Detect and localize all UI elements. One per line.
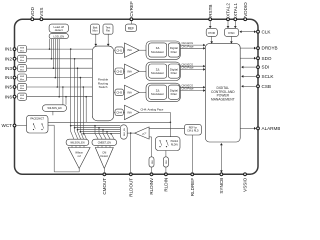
pin IN3	[13, 67, 16, 70]
svg-text:CH2: CH2	[116, 69, 122, 73]
svg-text:filter: filter	[20, 97, 24, 100]
lead-off detect block	[49, 24, 68, 32]
RLDINV capsule	[149, 157, 154, 167]
svg-text:DRDYB: DRDYB	[262, 46, 278, 51]
channel group CH2	[146, 62, 180, 80]
pin WCT	[13, 124, 16, 127]
wire EMI filter 1 to routing switch	[27, 48, 93, 50]
svg-text:VDDIO: VDDIO	[243, 2, 248, 17]
wire INA to modulator CH3	[139, 91, 146, 93]
wire CH3-Pace	[180, 90, 204, 92]
wire CH3-ECG	[180, 86, 204, 88]
wire CMDET tap 5	[110, 133, 112, 135]
svg-text:RLDOUT: RLDOUT	[128, 178, 133, 197]
pin RLDINV	[150, 173, 153, 176]
svg-text:EMI: EMI	[20, 76, 24, 78]
wire SYNCB (bidirectional)	[220, 145, 222, 172]
svg-text:RLD: RLD	[152, 159, 154, 163]
wire OSC to CLK pin (bidirectional)	[242, 31, 256, 33]
svg-text:Filter: Filter	[171, 71, 177, 75]
wire LOD_EN tap to IN6	[58, 39, 60, 97]
channel tag CH2	[115, 68, 124, 75]
pin IN4	[13, 76, 16, 79]
svg-text:Modulator: Modulator	[151, 71, 164, 75]
pin SCLK	[257, 75, 260, 78]
pin CLK	[257, 30, 260, 33]
pin SDO	[257, 57, 260, 60]
wire RLD - input to RLDINV	[149, 136, 151, 138]
WILSON_EN switch capsule (pace/WCT)	[62, 87, 64, 105]
svg-text:CH3: CH3	[116, 91, 122, 95]
svg-text:CM & RLD: CM & RLD	[187, 130, 199, 133]
op-amp Wilson ref	[68, 148, 90, 169]
svg-text:EMI: EMI	[20, 67, 24, 69]
digital control and power management block	[205, 44, 240, 142]
switch in PACE2RLDIN at x=166.5	[166, 140, 167, 141]
wire electrode tap 5 vertical	[82, 87, 84, 132]
svg-text:EMI: EMI	[20, 95, 24, 97]
RLD routing capsule	[120, 125, 127, 139]
wire XTAL1 to OSC	[234, 21, 236, 28]
wire electrode tap 3 vertical	[77, 68, 79, 131]
pin ALARMB	[257, 127, 260, 130]
svg-text:filter: filter	[20, 68, 24, 71]
svg-text:VSSIO: VSSIO	[243, 177, 248, 191]
wire IN4 to EMI filter	[16, 77, 18, 79]
EMI filter 2	[18, 55, 27, 62]
svg-text:filter: filter	[20, 87, 24, 90]
pin XTAL2	[227, 18, 230, 21]
svg-text:IN4: IN4	[5, 75, 13, 80]
pin IN1	[13, 48, 16, 51]
RLDIN capsule	[163, 157, 168, 167]
wire RLDIN pin to capsule	[165, 167, 167, 174]
wire EMI filter 3 to routing switch	[27, 67, 93, 69]
EMI filter 5	[18, 83, 27, 90]
pin XTAL1	[234, 18, 237, 21]
svg-text:SCLK: SCLK	[262, 74, 275, 79]
EMI filter 3	[18, 65, 27, 72]
svg-text:CH4: CH4	[116, 111, 122, 115]
flexible routing switch	[92, 46, 113, 121]
EMI filter 4	[18, 74, 27, 81]
reference block REF for CM & RLD	[185, 124, 202, 135]
svg-text:MANAGEMENT: MANAGEMENT	[211, 97, 235, 101]
wire CH1-ECG	[180, 44, 204, 46]
wire capsule to RLDINV pin	[151, 167, 153, 174]
svg-text:INA: INA	[127, 90, 132, 94]
svg-text:RLD_EN: RLD_EN	[124, 128, 126, 136]
svg-text:RLDREF: RLDREF	[190, 178, 195, 197]
OSC block	[224, 28, 238, 36]
svg-text:CH4: Analog Pace: CH4: Analog Pace	[141, 108, 164, 112]
wire REF to RLDREF pin	[191, 135, 193, 174]
wire LOD_EN tap to IN1	[49, 39, 51, 49]
wire CSB in	[242, 85, 256, 87]
wire CH1-Pace	[180, 47, 204, 49]
wire EMI filter 6 to routing switch	[27, 96, 93, 98]
svg-text:ALARMB: ALARMB	[262, 126, 281, 131]
wire XTAL2 to OSC	[227, 21, 229, 28]
CMDET_EN switch bank	[92, 139, 117, 145]
wire CM/RLD bus line 1	[71, 125, 121, 127]
wire switch to CH4	[114, 111, 115, 113]
svg-text:CLK: CLK	[262, 29, 272, 34]
svg-text:POR: POR	[208, 31, 215, 35]
svg-text:INA: INA	[127, 110, 132, 114]
svg-text:INA: INA	[127, 48, 132, 52]
wire test box to switch	[107, 34, 109, 45]
svg-text:CMOUT: CMOUT	[102, 178, 107, 195]
svg-text:Filter: Filter	[171, 50, 177, 54]
pin VSSIO	[244, 173, 247, 176]
svg-text:Rst: Rst	[106, 29, 110, 33]
svg-text:IN2: IN2	[5, 56, 13, 61]
pin SDI	[257, 66, 260, 69]
wire CMDET tap 3	[102, 130, 104, 134]
wire CVREF to REF	[130, 21, 132, 24]
WILSON_EN switch bank	[66, 139, 89, 145]
pin RLDOUT	[129, 173, 132, 176]
op-amp INA CH2	[123, 70, 126, 72]
pin CSB	[257, 85, 260, 88]
svg-text:RSTB: RSTB	[208, 5, 213, 17]
svg-text:REF: REF	[128, 26, 134, 30]
svg-text:PACE2WCT: PACE2WCT	[30, 118, 44, 121]
svg-text:VDD: VDD	[30, 6, 35, 16]
svg-text:RLDIN: RLDIN	[164, 178, 169, 192]
wire electrode tap 1 vertical	[70, 49, 72, 131]
digital filter CH2	[168, 64, 179, 78]
svg-text:CSB: CSB	[262, 84, 271, 89]
op-amp INA CH1	[123, 49, 126, 51]
svg-text:CMDET_EN: CMDET_EN	[98, 142, 111, 145]
pin RLDIN	[165, 173, 168, 176]
pin SYNCB	[220, 173, 223, 176]
sigma-delta modulator CH3	[149, 85, 167, 99]
wire switch to CH1	[114, 49, 115, 51]
pin IN5	[13, 86, 16, 89]
wire capsule to RLD node	[127, 132, 135, 134]
svg-text:SDO: SDO	[262, 56, 272, 61]
wire LOD_EN tap to IN2	[50, 39, 52, 59]
wire CMDET tap 1	[94, 126, 96, 134]
wire CH4 analog pace out	[139, 111, 170, 113]
wire IN6 to EMI filter	[16, 96, 18, 98]
svg-text:IN6: IN6	[5, 94, 13, 99]
wire CMDET tap 2	[98, 128, 100, 134]
wire SCLK in	[242, 75, 256, 77]
svg-text:OSC: OSC	[228, 31, 235, 35]
wire electrode tap 4 vertical	[79, 78, 81, 132]
svg-text:ref: ref	[78, 154, 81, 158]
pin DRDYB	[257, 47, 260, 50]
wire batt mon to switch	[95, 34, 97, 45]
channel tag CH4	[115, 109, 123, 116]
wire EMI filter 5 to routing switch	[27, 86, 93, 88]
svg-text:Mon: Mon	[92, 29, 98, 33]
wire DRDYB out	[240, 47, 255, 49]
svg-text:LOD_EN: LOD_EN	[53, 34, 64, 38]
svg-text:WILSON_EN: WILSON_EN	[47, 107, 61, 110]
svg-text:RLD: RLD	[166, 159, 168, 163]
svg-text:Switch: Switch	[99, 85, 108, 89]
wire LOD_EN tap to IN3	[52, 39, 54, 68]
svg-text:WCT: WCT	[2, 123, 13, 128]
pin VSS	[40, 18, 43, 21]
svg-text:XTAL2: XTAL2	[226, 3, 231, 17]
wire CMDET tap 4	[106, 132, 108, 134]
wire switch to CH2	[114, 70, 115, 72]
wire electrode tap 6 vertical	[85, 97, 87, 123]
svg-text:filter: filter	[20, 59, 24, 62]
wire CM/RLD bus line 3	[78, 129, 121, 131]
wire electrode tap 2 vertical	[74, 59, 76, 132]
channel tag CH1	[115, 47, 124, 54]
test rst box	[103, 24, 113, 34]
svg-text:PACE2: PACE2	[171, 140, 179, 143]
LOD_EN switch bank	[49, 34, 68, 39]
wire CM/RLD bus line 4	[80, 131, 120, 133]
wire SDO out	[240, 57, 255, 59]
svg-text:detect: detect	[55, 28, 63, 32]
channel group CH1	[146, 41, 180, 59]
reference block REF	[125, 24, 136, 32]
svg-text:CH1-Pace: CH1-Pace	[182, 44, 195, 48]
wire INA to modulator CH1	[139, 49, 146, 51]
svg-text:Modulator: Modulator	[151, 92, 164, 96]
wire LOD_EN tap to IN5	[56, 39, 58, 87]
svg-text:CH3-Pace: CH3-Pace	[182, 87, 195, 91]
sigma-delta modulator CH2	[149, 64, 167, 78]
wire CM/RLD bus line 2	[75, 127, 121, 129]
svg-text:filter: filter	[20, 49, 24, 52]
EMI filter 1	[18, 46, 27, 53]
svg-text:INA: INA	[127, 69, 132, 73]
wire CH4 pace down to PACE2RLDIN	[169, 112, 171, 139]
wire RSTB to POR	[209, 21, 211, 28]
chip outline ADS1293	[15, 19, 259, 174]
svg-text:CH1: CH1	[116, 48, 122, 52]
svg-text:EMI: EMI	[20, 57, 24, 59]
svg-text:EMI: EMI	[20, 85, 24, 87]
svg-text:RLDINV: RLDINV	[149, 177, 154, 195]
svg-text:Filter: Filter	[171, 92, 177, 96]
wire switch to CH3	[114, 91, 115, 93]
op-amp RLD (points left)	[135, 127, 149, 139]
svg-text:CH2-Pace: CH2-Pace	[182, 66, 195, 70]
wire IN3 to EMI filter	[16, 67, 18, 69]
pin CMOUT	[103, 173, 106, 176]
svg-text:IN5: IN5	[5, 85, 13, 90]
channel tag CH3	[115, 89, 124, 96]
wire IN1 to EMI filter	[16, 48, 18, 50]
svg-text:VSS: VSS	[39, 8, 44, 17]
switch box PACE2WCT	[27, 115, 49, 133]
svg-text:SYNCB: SYNCB	[219, 178, 224, 194]
POR block	[206, 28, 217, 36]
wire POR to digital block	[211, 36, 213, 42]
switch in PACE2RLDIN at x=160.0	[159, 140, 160, 141]
wire SDI in	[242, 66, 256, 68]
battery monitor box	[91, 24, 100, 34]
wire RLD out to RLDOUT	[130, 133, 132, 174]
pin IN2	[13, 57, 16, 60]
wire CH4 analog pace branch	[48, 121, 170, 123]
pin CVREF	[130, 18, 133, 21]
svg-text:IN1: IN1	[5, 47, 13, 52]
wire IN5 to EMI filter	[16, 86, 18, 88]
wire IN2 to EMI filter	[16, 58, 18, 60]
wire Wilson ref out to PACE2WCT	[78, 169, 80, 172]
wire ALARMB out	[240, 127, 255, 129]
pin RSTB	[209, 18, 212, 21]
op-amp INA CH3	[123, 91, 126, 93]
wire WCT to PACE2WCT	[16, 125, 27, 127]
digital filter CH3	[168, 85, 179, 99]
svg-text:Modulator: Modulator	[151, 50, 164, 54]
svg-text:CVREF: CVREF	[129, 1, 134, 17]
svg-text:IN3: IN3	[5, 66, 13, 71]
op-amp INA CH4	[123, 111, 124, 113]
pin RLDREF	[191, 173, 194, 176]
wire CH2-ECG	[180, 65, 204, 67]
EMI filter 6	[18, 93, 27, 100]
switch in PACE2WCT at x=33.5	[33, 123, 34, 124]
pin VDDIO	[244, 18, 247, 21]
wire EMI filter 2 to routing switch	[27, 58, 93, 60]
sigma-delta modulator CH1	[149, 43, 167, 57]
wire INA to modulator CH2	[139, 70, 146, 72]
wire EMI filter 4 to routing switch	[27, 77, 93, 79]
switch in PACE2WCT at x=42.0	[41, 123, 42, 124]
svg-text:XTAL1: XTAL1	[233, 3, 238, 17]
op-amp CM detect	[95, 148, 113, 169]
svg-text:filter: filter	[20, 78, 24, 81]
svg-text:EMI: EMI	[20, 48, 24, 50]
wire CM/RLD bus line 5	[83, 133, 120, 135]
svg-text:Detect: Detect	[101, 154, 109, 158]
wire CH2-Pace	[180, 68, 204, 70]
svg-text:RLDIN: RLDIN	[171, 144, 178, 146]
digital filter CH1	[168, 43, 179, 57]
svg-text:WILSON_EN: WILSON_EN	[70, 142, 84, 145]
wire CM detect out to CMOUT	[103, 169, 105, 175]
wire OSC to digital block	[230, 36, 232, 42]
svg-text:SDI: SDI	[262, 65, 270, 70]
switch box PACE2RLDIN	[156, 137, 181, 151]
channel group CH3	[146, 83, 180, 101]
pin VDD	[31, 18, 34, 21]
wire LOD_EN tap to IN4	[54, 39, 56, 78]
pin IN6	[13, 95, 16, 98]
wire RLD + input to REF	[149, 128, 184, 130]
